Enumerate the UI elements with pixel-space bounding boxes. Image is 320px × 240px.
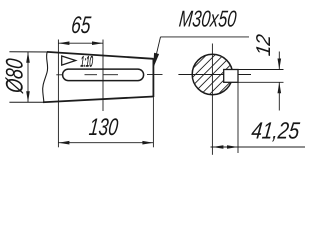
dimension 41,25 left arrow [212,145,223,149]
section circle (shaft cross-section) [192,54,232,94]
dimension 65 line [58,42,103,44]
section horizontal centerline dash (shaft axis stub) [147,74,163,76]
keyway slot centerline dash 1 [85,74,98,76]
keyway edge extension for 41,25 [237,82,239,153]
dimension 12 extension line top [238,69,284,71]
dimension 41,25 right arrow [227,145,238,149]
shaft top edge taper outline [47,52,153,59]
leader arrowhead [153,53,159,69]
section horizontal centerline [178,74,251,76]
dimension 41,25 line [211,146,306,148]
section hatching [153,40,281,100]
svg-text:1:10: 1:10 [80,55,94,71]
dimension 12 lower arrowhead [278,82,282,93]
dimension 65 extension line left (gauge plane) [57,40,59,148]
keyway slot centerline left stub [56,74,62,76]
dimension 130 line [58,142,153,144]
break line (wavy) [43,52,48,102]
shaft bottom edge taper outline [43,97,153,103]
svg-text:130: 130 [88,115,120,141]
dimension O80 bottom arrow [26,91,30,102]
shaft right edge extension for 130 [152,97,154,147]
dimension 65 right arrow [92,41,103,45]
svg-text:M30x50: M30x50 [178,7,238,32]
svg-text:12: 12 [252,33,274,57]
section vertical centerline [211,44,213,155]
keyway slot (stadium outline) [63,69,144,81]
leader shelf for M30x50 [161,36,250,38]
key cross-section (white rectangle) [224,70,238,83]
dimension 65 extension line right [102,40,104,112]
dimension O80 line [27,52,29,102]
dimension 12 upper arrow line [278,52,280,70]
dimension 65 left arrow [58,41,69,45]
dimension 12 upper arrowhead [278,59,282,70]
dimension O80 top arrow [26,52,30,63]
leader line [154,37,161,66]
dimension 130 left arrow [58,141,69,145]
shaft right end face [152,58,154,97]
svg-text:41,25: 41,25 [250,118,301,144]
dimension 12 extension line bottom [238,81,284,83]
dimension 12 lower arrow line [278,82,280,110]
taper symbol triangle [62,56,76,65]
svg-text:Ø80: Ø80 [1,57,28,95]
keyway slot centerline dash 2 [104,74,119,76]
shaft top edge extension (thin, left of break) [9,51,50,53]
shaft bottom edge extension (thin, left of break) [9,101,46,103]
dimension 130 right arrow [142,141,153,145]
svg-text:65: 65 [70,12,92,38]
